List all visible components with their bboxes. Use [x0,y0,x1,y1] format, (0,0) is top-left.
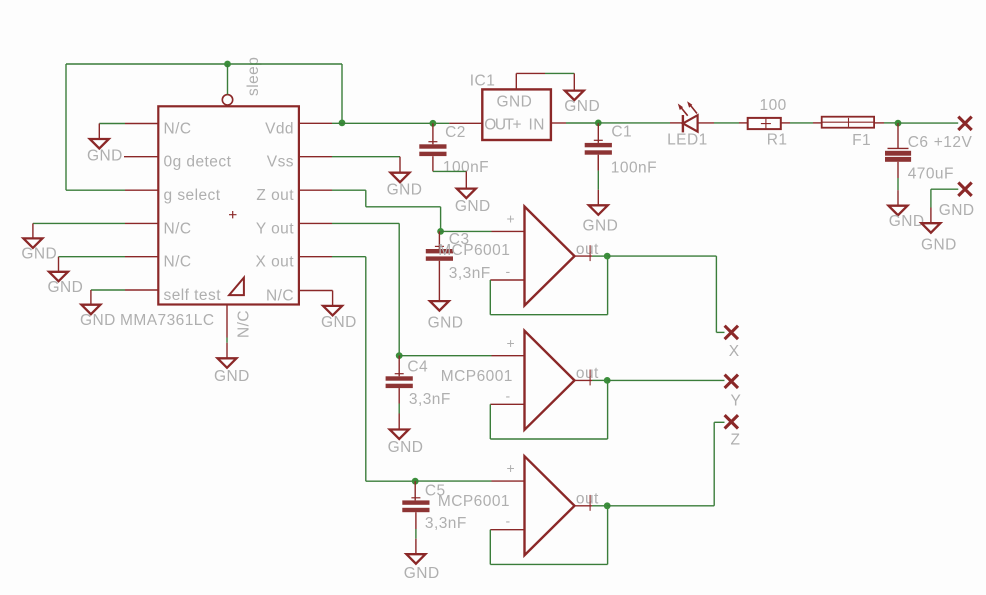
svg-text:GND: GND [388,439,424,456]
svg-text:MCP6001: MCP6001 [441,368,513,385]
svg-text:X out: X out [256,254,295,271]
svg-text:OUT+: OUT+ [484,117,521,134]
svg-text:-: - [506,513,511,529]
svg-text:GND: GND [214,368,250,385]
svg-text:out: out [576,491,599,508]
svg-text:C2: C2 [445,124,466,141]
svg-text:+: + [507,460,516,476]
svg-text:GND: GND [455,198,491,215]
svg-text:GND: GND [80,312,116,329]
svg-text:Vss: Vss [267,154,294,171]
svg-text:g select: g select [164,187,221,204]
svg-text:N/C: N/C [164,254,192,271]
svg-text:LED1: LED1 [667,132,708,149]
svg-text:MCP6001: MCP6001 [438,242,510,259]
svg-text:X: X [729,343,740,360]
svg-text:GND: GND [583,218,619,235]
svg-text:N/C: N/C [164,121,192,138]
svg-text:GND: GND [889,213,925,230]
svg-text:Y out: Y out [256,220,294,237]
svg-text:3,3nF: 3,3nF [425,515,467,532]
svg-text:GND: GND [21,245,57,262]
svg-text:GND: GND [48,279,84,296]
svg-text:3,3nF: 3,3nF [409,391,451,408]
svg-text:Vdd: Vdd [265,121,294,138]
svg-text:IN: IN [528,117,544,134]
svg-text:Y: Y [731,392,742,409]
svg-text:GND: GND [321,314,357,331]
svg-text:GND: GND [428,315,464,332]
svg-text:GND: GND [921,237,957,254]
svg-text:100: 100 [760,97,787,114]
svg-text:C4: C4 [407,359,428,376]
svg-text:+: + [507,211,516,227]
svg-text:GND: GND [497,94,533,111]
svg-text:100nF: 100nF [611,159,657,176]
svg-text:C6: C6 [908,134,929,151]
svg-text:Z: Z [731,431,741,448]
svg-text:3,3nF: 3,3nF [449,265,491,282]
svg-text:+: + [507,335,516,351]
svg-text:out: out [576,241,599,258]
svg-text:out: out [576,365,599,382]
svg-text:MCP6001: MCP6001 [438,493,510,510]
svg-text:N/C: N/C [236,310,253,338]
svg-text:GND: GND [404,565,440,582]
svg-text:-: - [506,263,511,279]
svg-text:GND: GND [939,202,975,219]
svg-text:C1: C1 [611,124,632,141]
svg-text:MMA7361LC: MMA7361LC [120,312,215,329]
svg-text:IC1: IC1 [470,73,495,90]
svg-text:F1: F1 [852,132,871,149]
svg-text:+12V: +12V [934,134,973,151]
svg-text:N/C: N/C [164,220,192,237]
svg-text:470uF: 470uF [908,165,954,182]
svg-text:sleep: sleep [245,57,262,96]
svg-text:Z out: Z out [256,187,294,204]
svg-text:R1: R1 [767,132,788,149]
svg-text:-: - [506,387,511,403]
svg-text:GND: GND [87,147,123,164]
svg-text:self test: self test [164,287,222,304]
svg-text:N/C: N/C [266,288,294,305]
svg-text:GND: GND [387,181,423,198]
svg-text:GND: GND [564,98,600,115]
svg-text:0g detect: 0g detect [164,154,232,171]
